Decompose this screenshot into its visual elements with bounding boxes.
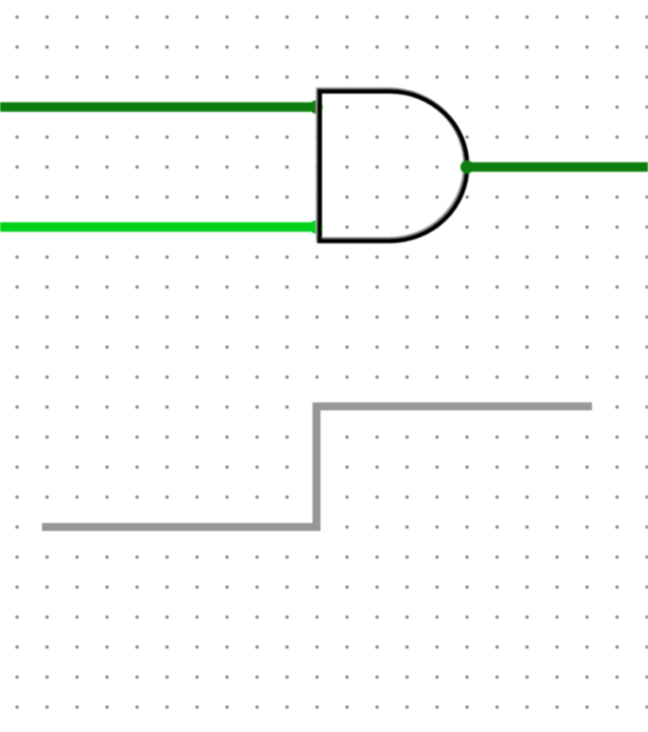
wire input A (logic low, dark green) [0, 102, 317, 112]
and gate U1 [317, 91, 467, 241]
and gate U1 gray resample fringe [316, 90, 466, 240]
node post input A [309, 100, 322, 113]
waveform trace (gray step) [42, 406, 592, 527]
node post output [460, 160, 473, 173]
node post input B [309, 220, 322, 233]
wire input B (logic high, bright green) [0, 222, 317, 232]
wire output (dark green) [467, 162, 648, 172]
